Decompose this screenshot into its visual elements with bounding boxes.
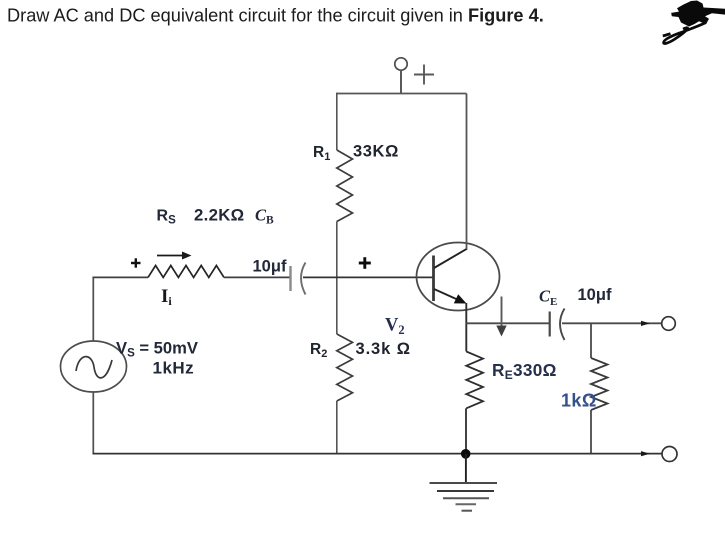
svg-text:RE330Ω: RE330Ω [492,360,557,382]
wire top rail [337,93,467,95]
arrow Ii current [157,252,192,260]
svg-text:2.2KΩ: 2.2KΩ [194,206,244,225]
terminal VCC [395,58,407,70]
terminal output top [662,317,676,331]
label + (base) [359,257,371,269]
svg-text:1kΩ: 1kΩ [561,391,597,411]
capacitor CB [291,263,306,295]
svg-text:10μf: 10μf [578,286,612,304]
wire CE to output [562,322,662,324]
label + (input) [131,258,141,267]
resistor RE [466,352,483,409]
wire source top [92,277,94,342]
transistor Q1 [417,243,500,311]
svg-text:33KΩ: 33KΩ [353,143,399,161]
svg-text:3.3k Ω: 3.3k Ω [356,340,411,358]
resistor RL 1kΩ [591,358,608,410]
resistor RS [148,266,224,278]
wire input left [93,276,149,278]
resistor R2 [337,334,353,401]
wire collector [466,94,468,250]
node ground junction [461,449,471,459]
wire R1 top [336,93,338,150]
arrowhead output bottom [641,451,650,456]
terminal output bottom [662,447,677,462]
wire source bottom [92,392,94,454]
wire RL bottom [590,410,592,454]
wire bottom rail [93,453,662,455]
wire emitter to CE [466,322,549,324]
resistor R1 [337,150,353,222]
ground [430,454,498,511]
ink scribble [663,1,725,44]
svg-text:10μf: 10μf [253,258,287,276]
source VS [61,341,127,392]
wire RS to CB [224,276,290,278]
arrow IE current [496,297,506,337]
wire R2 bottom [336,401,338,454]
svg-text:1kHz: 1kHz [153,359,195,378]
wire base [303,276,434,278]
wire R1 to R2 (base node) [336,222,338,335]
svg-text:Draw AC and DC equivalent circ: Draw AC and DC equivalent circuit for th… [7,5,544,25]
arrowhead output top [641,321,650,326]
wire RL top [590,323,592,358]
wire VCC stem [400,70,402,93]
wire RE bottom [465,408,467,453]
label + (VCC) [414,65,434,85]
capacitor CE [550,309,565,341]
wire emitter [465,303,467,352]
